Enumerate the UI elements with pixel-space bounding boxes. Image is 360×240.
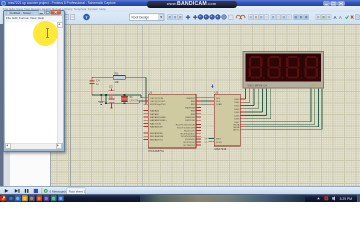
Proteus title bar (0, 0, 360, 6)
wire dig 3 (245, 128, 322, 131)
I-beam cursor (45, 28, 50, 38)
wire ground stub (100, 95, 103, 101)
wire dig 0 (245, 120, 311, 123)
node origin marker (211, 85, 214, 88)
wire left connector (105, 95, 108, 103)
svg-text:U2: U2 (215, 90, 219, 94)
wire seg 2 (245, 104, 254, 107)
capacitor C2 (109, 98, 115, 101)
digit 1 (249, 56, 265, 79)
resistor R1 (113, 75, 125, 79)
svg-text:DIG3: DIG3 (234, 109, 240, 111)
wire seg 4 (245, 111, 263, 114)
wire seg 1 (245, 101, 250, 104)
svg-text:PIC16F877A: PIC16F877A (149, 149, 165, 153)
svg-text:OSC1/CLKIN: OSC1/CLKIN (150, 98, 163, 100)
svg-text:DIN: DIN (216, 98, 220, 100)
sheet border mid (141, 24, 144, 186)
window buttons (323, 1, 345, 5)
wire W2 R1 to MCLR (125, 76, 146, 79)
digit 3 (286, 56, 302, 79)
left edge strip (0, 24, 3, 187)
U2 left pins (209, 96, 214, 99)
svg-text:RA1/AN1: RA1/AN1 (150, 113, 160, 116)
svg-text:RE2/AN7/CS: RE2/AN7/CS (150, 138, 163, 141)
svg-text:DIG0: DIG0 (234, 99, 240, 101)
taskbar (0, 194, 360, 203)
svg-text:RC1/T1OSI/CCP2: RC1/T1OSI/CCP2 (177, 128, 196, 130)
svg-text:RA0/AN0: RA0/AN0 (150, 110, 160, 113)
U1 right pins (196, 96, 201, 99)
svg-text:MAX7219: MAX7219 (215, 147, 227, 151)
svg-text:RC3/SCK/SCL: RC3/SCK/SCL (181, 133, 196, 135)
svg-text:U1: U1 (149, 90, 153, 94)
crystal X1 (121, 95, 128, 98)
svg-text:C4: C4 (96, 79, 100, 83)
svg-text:RE0/AN5/RD: RE0/AN5/RD (150, 132, 163, 135)
svg-text:DIG4: DIG4 (234, 112, 240, 114)
svg-text:RA5/AN4/SS: RA5/AN4/SS (150, 126, 163, 129)
svg-text:7SEG-MPX4-CA: 7SEG-MPX4-CA (246, 83, 267, 87)
wire dig 1 (245, 123, 315, 126)
svg-text:RB3/PGM: RB3/PGM (185, 107, 195, 109)
junction dots (105, 94, 107, 96)
svg-text:MCLR/Vpp/THV: MCLR/Vpp/THV (150, 104, 166, 106)
svg-text:DIG1: DIG1 (234, 102, 240, 104)
svg-text:DOUT: DOUT (216, 142, 223, 144)
svg-text:ISET: ISET (216, 139, 222, 141)
svg-text:RE1/AN6/WR: RE1/AN6/WR (150, 135, 164, 138)
Bandicam watermark (147, 1, 237, 8)
svg-text:OSC2/CLKOUT: OSC2/CLKOUT (150, 101, 166, 103)
wire seg 6 (245, 117, 271, 120)
svg-text:SEGC: SEGC (233, 129, 240, 131)
svg-text:RC5/SDO: RC5/SDO (185, 139, 195, 141)
svg-text:R1: R1 (115, 71, 119, 75)
svg-text:RA2/AN2/VREF-: RA2/AN2/VREF- (150, 116, 167, 119)
wire seg 0 (244, 98, 247, 101)
U2 right pins (240, 98, 245, 101)
svg-text:CLK: CLK (216, 101, 221, 103)
wire B2 OSC2 net (106, 102, 139, 105)
svg-text:RB7/PGD: RB7/PGD (185, 120, 195, 122)
wire B1 OSC1 net (92, 94, 141, 97)
svg-text:DIG2: DIG2 (234, 106, 240, 108)
Proteus toolbar (0, 12, 360, 25)
wire U1-U2 CLK (201, 100, 209, 103)
U2 bottom-left pins ISET DOUT (208, 137, 214, 140)
capacitor C4 (selected, dashed red) (91, 77, 93, 95)
digit 4 (305, 56, 321, 79)
wire dig 2 (245, 125, 319, 128)
wire U1-U2 LOAD (201, 103, 209, 106)
white window behind notepad (bottom-left) (3, 147, 52, 186)
svg-text:RB6/PGC: RB6/PGC (185, 117, 195, 119)
svg-text:X1: X1 (129, 95, 133, 99)
wire seg 5 (245, 114, 267, 117)
svg-text:3:29 PM: 3:29 PM (340, 197, 353, 201)
svg-text:RC2/CCP1: RC2/CCP1 (184, 130, 196, 132)
wire seg 3 (245, 107, 258, 110)
svg-text:RC4/SDI/SDA: RC4/SDI/SDA (181, 135, 195, 138)
svg-text:RA4/T0CKI: RA4/T0CKI (150, 122, 161, 125)
svg-text:RC6/TX/CK: RC6/TX/CK (184, 142, 196, 144)
svg-text:RC0/T1OSO/T1CKI: RC0/T1OSO/T1CKI (176, 125, 196, 127)
svg-text:RB0/INT: RB0/INT (187, 98, 196, 100)
ground (98, 100, 104, 103)
svg-text:10k: 10k (115, 80, 120, 84)
digit 2 (267, 56, 283, 79)
sheet border left (69, 24, 72, 186)
notepad window (3, 10, 63, 150)
animation control bar (0, 186, 360, 195)
svg-text:C3: C3 (109, 85, 113, 89)
svg-text:LOAD: LOAD (216, 103, 222, 106)
yellow highlight circle (33, 21, 59, 47)
svg-text:<TEXT>: <TEXT> (310, 83, 321, 87)
Proteus menu bar (0, 6, 360, 12)
wire W1 reset net (92, 76, 113, 79)
svg-text:CRYSTAL: CRYSTAL (129, 99, 140, 102)
svg-text:RC7/RX/DT: RC7/RX/DT (183, 145, 195, 147)
svg-text:DIG6: DIG6 (234, 119, 240, 121)
U1 left pins (143, 96, 148, 99)
display DS1 7SEG-MPX4-CA (243, 52, 324, 89)
wire U1-U2 DIN (201, 96, 209, 99)
svg-text:RA3/AN3/VREF+: RA3/AN3/VREF+ (150, 119, 168, 122)
sheet border top (3, 23, 360, 26)
svg-text:DIG5: DIG5 (234, 115, 240, 117)
